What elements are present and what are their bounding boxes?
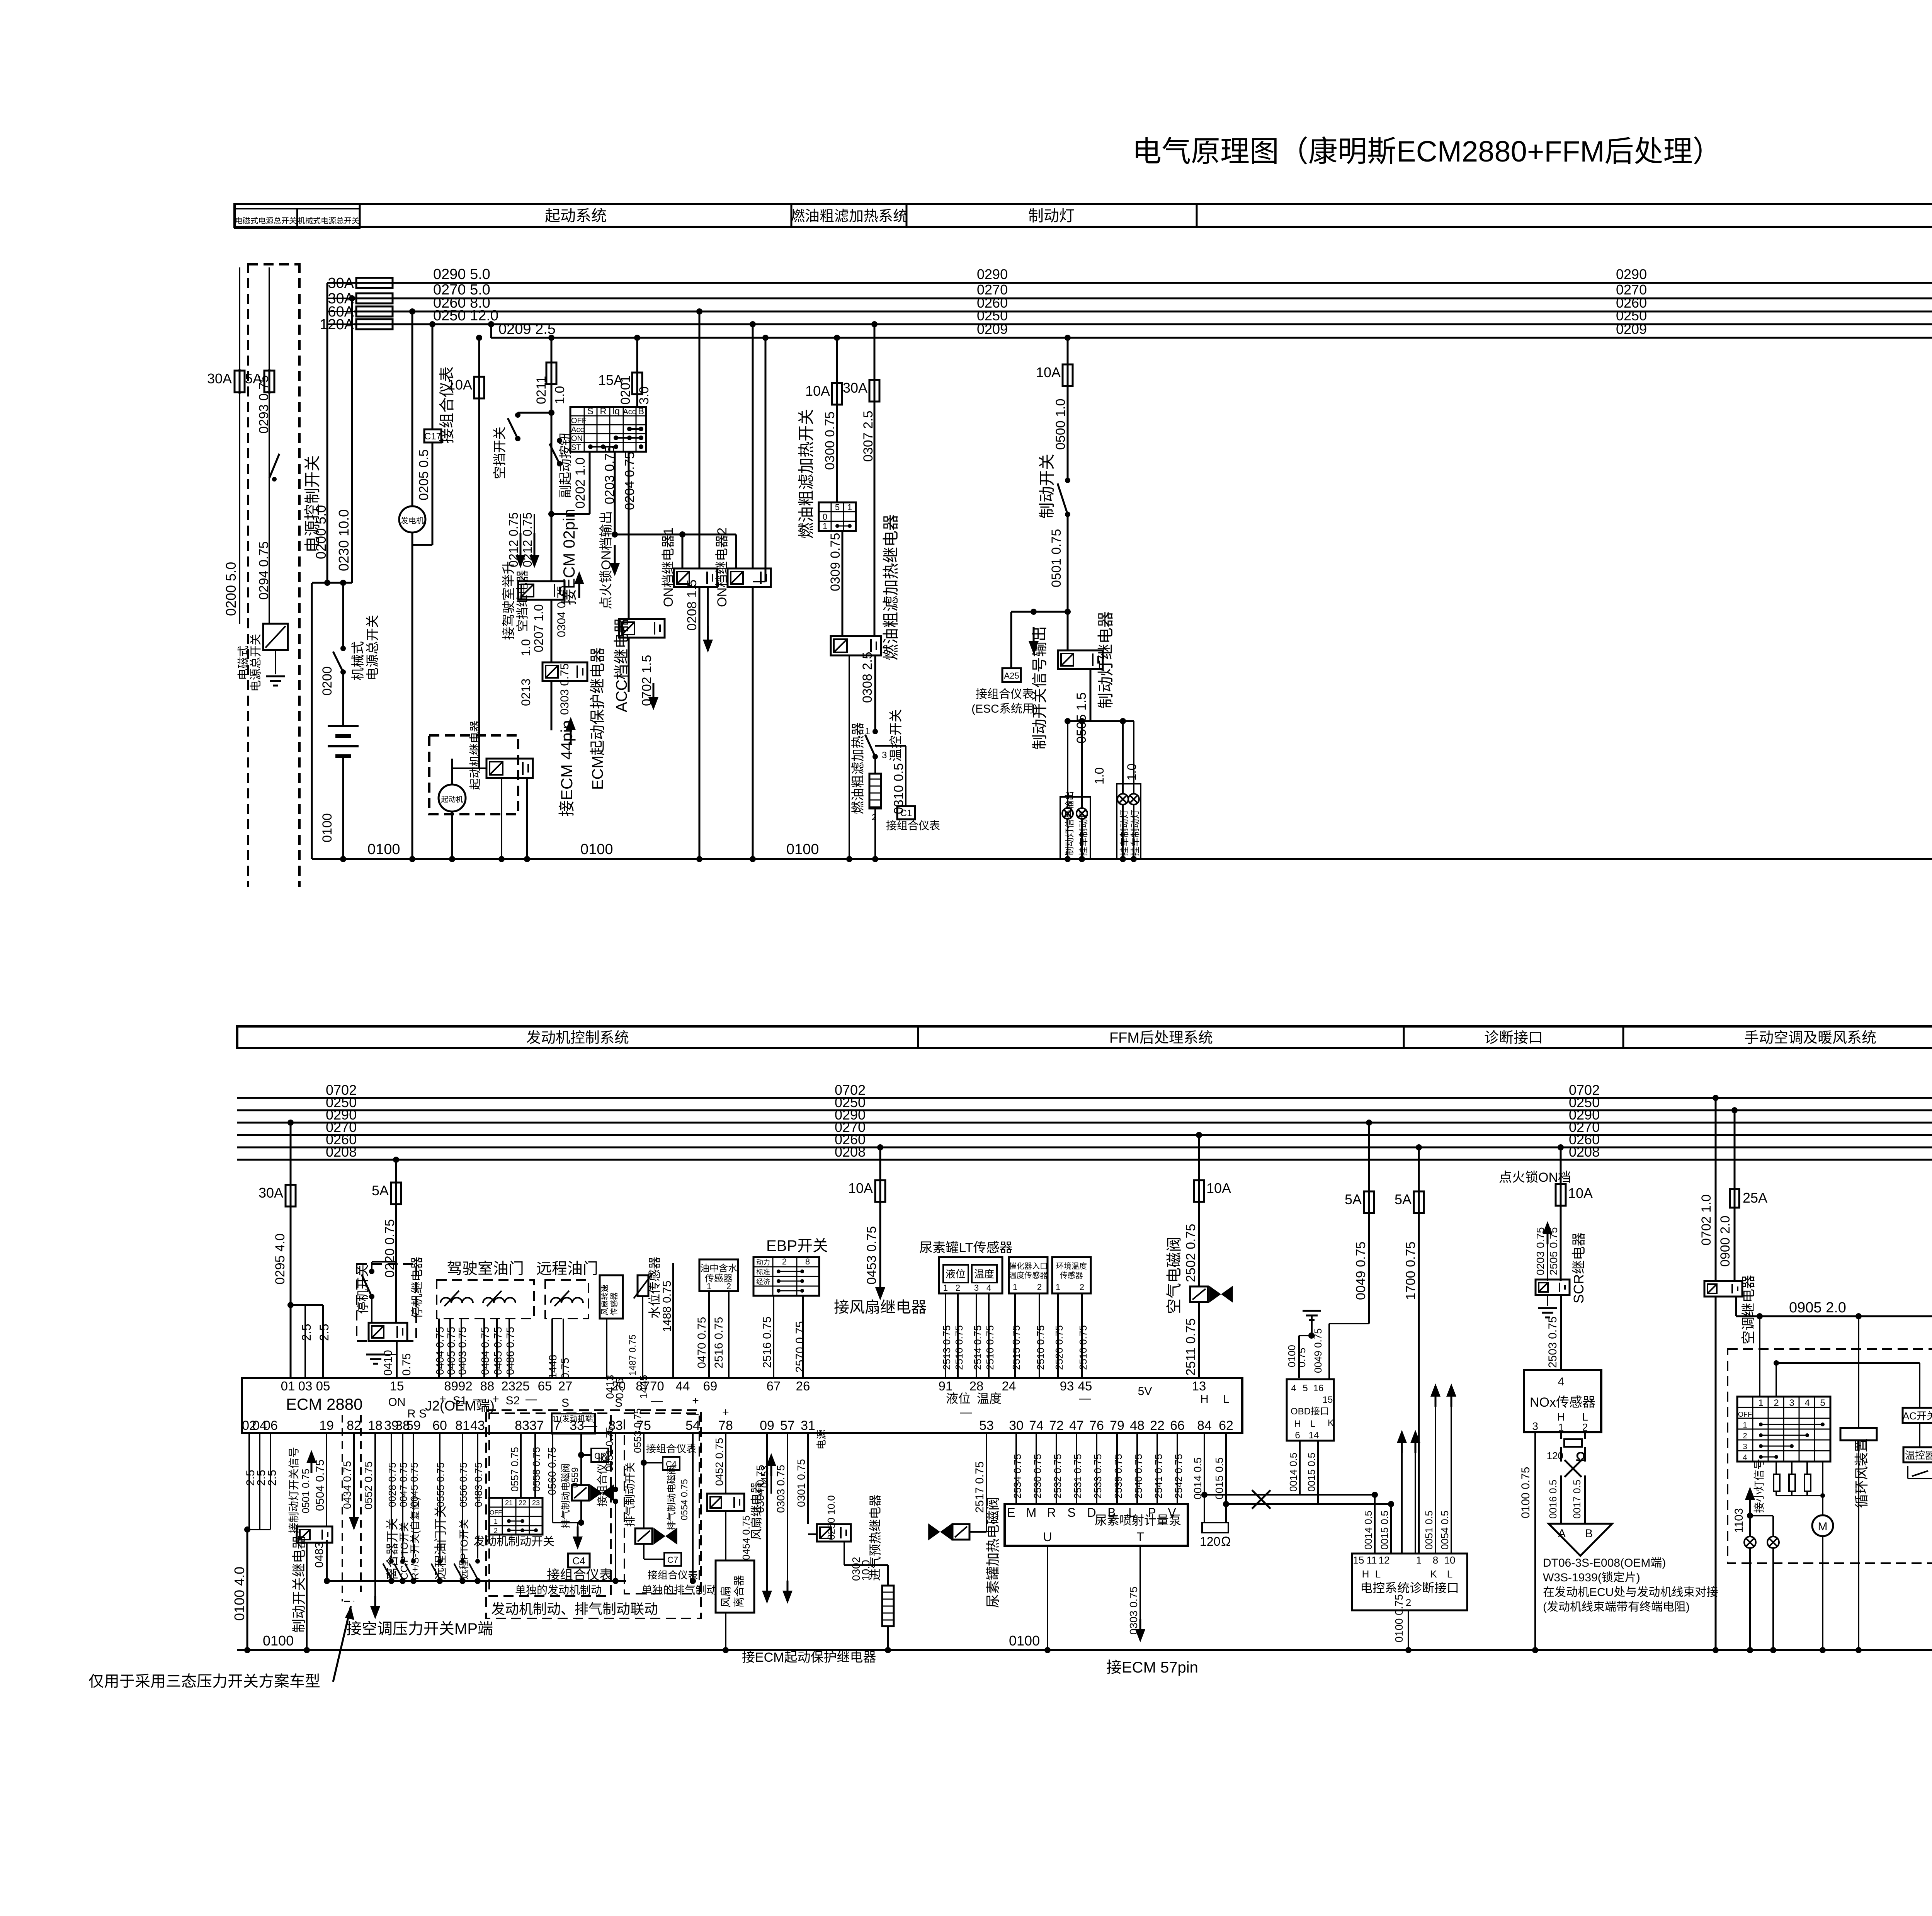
svg-text:0.75: 0.75 [559,1358,571,1379]
svg-text:接ECM 44pin: 接ECM 44pin [558,720,576,817]
ground scr [1538,1295,1557,1317]
label 1700 0.75 [1403,1242,1418,1300]
label 0205 0.5 [417,449,431,500]
label 0100 c [786,841,819,858]
wire cat2 [1039,1293,1040,1378]
label 0250 12.0 [433,308,498,324]
wire 0045 0.75 [413,1433,414,1559]
relay 燃油粗滤加热继电器 [831,636,881,655]
svg-text:19: 19 [319,1418,334,1433]
junction rail [312,580,352,859]
fuse 5A diag [1395,1144,1424,1215]
svg-text:3: 3 [1789,1398,1794,1408]
label 0303 0.75 b [775,1465,787,1513]
label 0100 bottom mid [1009,1633,1040,1649]
header cell 机械式电源总开关 [297,209,360,228]
pot 驾驶室油门 2 [483,1291,515,1306]
label 2530 0.75 [1032,1454,1043,1499]
wire 0470 [708,1291,710,1378]
svg-text:0557 0.75: 0557 0.75 [509,1447,520,1492]
label 接风扇继电器 [834,1299,927,1316]
svg-text:2516 0.75: 2516 0.75 [713,1317,725,1368]
svg-text:26: 26 [796,1379,810,1393]
svg-text:5: 5 [835,502,840,512]
svg-text:0470 0.75: 0470 0.75 [696,1317,708,1368]
svg-text:挂车制动灯: 挂车制动灯 [1119,810,1130,856]
label 远程PTO开关 [458,1519,470,1580]
wire 1448a [552,1319,563,1378]
svg-text:排气制动电磁阀: 排气制动电磁阀 [561,1463,571,1528]
svg-text:0100 0.75: 0100 0.75 [1519,1467,1532,1518]
wire nox H [1560,1432,1562,1439]
label 0230 10.0 [336,509,352,571]
wire valve1 [578,1434,591,1526]
label 发动机制动排气制动联动 [491,1601,658,1617]
label 接ECM 02pin [560,509,578,605]
svg-text:09: 09 [760,1418,774,1433]
label 2515 0.75 [1010,1325,1022,1370]
svg-text:制动开关继电器: 制动开关继电器 [291,1535,307,1633]
label 0100 4.0 b [231,1567,247,1621]
box 循环风装置 [1840,1428,1877,1440]
svg-text:1: 1 [1056,1282,1060,1292]
wire 0204 [628,452,630,619]
svg-text:在发动机ECU处与发动机线束对接: 在发动机ECU处与发动机线束对接 [1543,1586,1718,1599]
svg-text:14: 14 [1309,1430,1319,1441]
label 起动机继电器 [469,720,482,790]
svg-text:发电机: 发电机 [401,516,424,525]
annotation 仅用于 b [88,1606,354,1690]
svg-text:5A: 5A [1395,1191,1412,1207]
switch CC/PTO开关 [394,1559,405,1581]
svg-text:5A: 5A [372,1183,389,1198]
label 2542 0.75 [1173,1454,1184,1499]
wire recirc [1855,1316,1862,1653]
ground line 0100 bottom [237,1649,1932,1651]
fuse 30A b [259,1120,296,1208]
svg-text:10A: 10A [1206,1180,1231,1196]
fuse 30A aux [207,369,245,394]
label 0014 0.5 a [1192,1457,1204,1499]
svg-text:FFM后处理系统: FFM后处理系统 [1109,1030,1213,1046]
label 远程油门开关 [434,1506,447,1580]
svg-text:2: 2 [494,1527,498,1535]
wire diag canH [1372,1492,1378,1554]
arrow 0212 [515,514,539,568]
wire generator [409,308,415,507]
wire 2517 [969,1433,986,1532]
wire 0434 pin82 [349,1433,359,1530]
svg-text:+: + [722,1406,729,1419]
svg-text:温控开关: 温控开关 [889,709,903,762]
label 0555 0.75 [435,1462,446,1507]
svg-text:2: 2 [1774,1398,1779,1408]
switch 停机开关 [362,1262,396,1323]
svg-text:13: 13 [1192,1379,1206,1393]
svg-text:0208: 0208 [835,1144,866,1160]
svg-text:10A: 10A [1568,1185,1593,1201]
svg-text:4: 4 [986,1283,991,1293]
wire 1700 down [1418,1213,1420,1554]
wire pedal 0403 0.75 [461,1319,462,1378]
label 0294 0.75 [257,541,271,600]
svg-text:温度: 温度 [974,1268,994,1280]
svg-text:SCR继电器: SCR继电器 [1571,1232,1587,1303]
svg-text:Acc: Acc [623,408,636,416]
header label 诊断接口 [1484,1030,1543,1046]
svg-text:8: 8 [1433,1554,1438,1566]
label 0485 0.75 [492,1327,504,1375]
svg-text:59: 59 [406,1418,421,1433]
svg-text:OBD接口: OBD接口 [1291,1406,1329,1417]
wire 0028 0.75 [391,1433,392,1559]
label 排气制动电磁阀1 [561,1463,571,1528]
bus 0209 [491,337,1932,339]
svg-text:06: 06 [263,1418,278,1433]
label 0557 0.75 [509,1447,520,1492]
label 0015 0.5 c [1379,1511,1390,1550]
ground line 0100 top [312,858,1932,860]
fuse 60A bus0260 [328,304,395,320]
label 0702 1.0 [1699,1195,1714,1246]
svg-text:仅用于采用三态压力开关方案车型: 仅用于采用三态压力开关方案车型 [88,1673,320,1690]
wire ON2 vertical [750,321,756,859]
svg-text:27: 27 [558,1379,573,1393]
connector C4 a [568,1554,590,1567]
svg-text:0552 0.75: 0552 0.75 [362,1461,374,1509]
wire air valve [1198,1202,1200,1286]
label 0015 0.5 b [1306,1453,1317,1492]
svg-text:ECM 2880: ECM 2880 [286,1395,362,1413]
svg-text:1103: 1103 [1733,1508,1745,1533]
svg-text:0554 0.75: 0554 0.75 [679,1479,690,1520]
fuse 120A bus0250 [320,316,395,333]
svg-text:挂车制动灯: 挂车制动灯 [1130,810,1141,856]
svg-text:L: L [1223,1393,1230,1406]
svg-text:油中含水: 油中含水 [700,1263,737,1274]
svg-text:0230 10.0: 0230 10.0 [336,509,352,571]
switch R+/S-开关(自复位) [405,1559,416,1581]
wire fanclutch gnd [723,1613,729,1653]
svg-text:0486 0.75: 0486 0.75 [504,1327,516,1375]
svg-text:C1: C1 [900,808,912,818]
switch 副起动按钮 [549,438,562,466]
fuse 5A aux [245,369,274,394]
wire obd H [1299,1441,1301,1495]
lamp ac 2 [1767,1537,1779,1548]
svg-text:0100 0.75: 0100 0.75 [1393,1594,1405,1642]
label 2513 0.75 2447 [941,1325,952,1370]
svg-text:10A: 10A [848,1180,873,1196]
svg-text:0454 0.75: 0454 0.75 [740,1515,752,1560]
svg-text:2520 0.75: 2520 0.75 [1053,1325,1065,1370]
svg-text:2513 0.75: 2513 0.75 [941,1325,952,1370]
ground dots bottom [0,0,0,0]
label 0250 10.0 电源 [816,1429,837,1540]
svg-text:2530 0.75: 2530 0.75 [1032,1454,1043,1499]
label 0501 0.75 [1049,529,1064,587]
svg-text:发动机制动、排气制动联动: 发动机制动、排气制动联动 [491,1601,658,1617]
label 0270 5.0 [433,282,490,298]
svg-text:2.5: 2.5 [317,1324,331,1341]
svg-text:2539 0.75: 2539 0.75 [1112,1454,1124,1499]
label 0553 0.75 [632,1408,643,1453]
svg-text:驾驶室油门: 驾驶室油门 [447,1260,524,1277]
wire relay to lamps [1068,669,1134,721]
svg-text:温度: 温度 [977,1392,1002,1406]
svg-text:尿素罐LT传感器: 尿素罐LT传感器 [919,1240,1012,1255]
svg-text:2: 2 [1037,1282,1042,1292]
svg-text:0501 0.75: 0501 0.75 [1049,529,1064,587]
label 0302 10.0 [850,1557,872,1581]
svg-text:0702 1.0: 0702 1.0 [1699,1195,1714,1246]
label 2532 0.75 [1052,1454,1063,1499]
wire pin31 [808,1433,817,1534]
wires below fan switch [1776,1462,1823,1516]
svg-text:2515 0.75: 2515 0.75 [1010,1325,1022,1370]
label DT06 line2 [1543,1571,1640,1584]
svg-text:10A: 10A [805,383,830,399]
svg-text:经济: 经济 [756,1278,770,1286]
svg-text:风扇: 风扇 [720,1586,732,1608]
svg-text:54: 54 [685,1418,700,1433]
wire relay feed [479,398,551,768]
svg-text:0207 1.0: 0207 1.0 [532,604,546,652]
svg-text:0453 0.75: 0453 0.75 [864,1226,879,1285]
wire pump 2734 [1056,1433,1057,1504]
label ECM起动保护继电器 [589,647,606,790]
label 燃油粗滤加热开关 [797,409,815,539]
wire scr down [1560,1206,1562,1281]
svg-text:0293 0.75: 0293 0.75 [257,375,271,434]
label 0014 0.5 c [1362,1511,1374,1550]
fuse 10A fan [848,1144,885,1203]
connector 电控系统诊断接口 [1352,1554,1467,1610]
svg-text:0.75: 0.75 [400,1353,413,1376]
label 接空调压力开关MP端 [346,1620,493,1637]
arrow 接ECM44pin [566,717,576,744]
header label FFM后处理系统 [1109,1030,1213,1046]
svg-text:2510 0.75: 2510 0.75 [1035,1325,1046,1370]
svg-text:电控系统诊断接口: 电控系统诊断接口 [1360,1581,1459,1595]
svg-text:30: 30 [1009,1418,1024,1433]
svg-text:EBP开关: EBP开关 [766,1237,828,1254]
wire pump 3047 [1177,1433,1178,1504]
relay 空挡继电器 [518,581,565,600]
svg-text:69: 69 [703,1379,718,1393]
label 0434 0.75 b [341,1461,353,1509]
wire 0413 [606,1319,607,1378]
label 0309 0.75 [828,533,843,591]
svg-text:0404 0.75: 0404 0.75 [434,1327,446,1375]
svg-text:8770: 8770 [636,1379,664,1393]
label 0290 5.0 [433,266,490,282]
svg-text:0295 4.0: 0295 4.0 [273,1234,287,1285]
wire 0202 relay down [551,600,553,662]
label 接组合仪表 c4b [646,1443,696,1455]
label 0100 0.75 diag [1393,1594,1405,1642]
wire 0309 [842,531,844,636]
bus 0208 b [237,1159,1932,1161]
svg-text:0553 0.75: 0553 0.75 [632,1408,643,1453]
svg-text:0290 5.0: 0290 5.0 [433,266,490,282]
label 0200 5.0 left [223,562,239,616]
svg-text:2: 2 [1582,1421,1588,1433]
svg-text:0100: 0100 [1009,1633,1040,1649]
label 排气制动电磁阀2 [667,1465,677,1530]
wire pin19 [326,1433,327,1526]
wire 1488 [672,1263,674,1378]
svg-text:远程油门开关: 远程油门开关 [434,1506,447,1580]
label 接组合仪表 top [439,366,456,444]
svg-text:催化器入口: 催化器入口 [1009,1262,1048,1271]
label 空调继电器 [1740,1275,1756,1344]
connector triangle AB [1549,1524,1612,1556]
wire pump 2995 [1156,1433,1158,1504]
label ACC档继电器 [613,618,630,712]
solenoid switch 电磁式电源总开关 [263,624,288,650]
twist nox [1561,1447,1585,1524]
label 0484 0.75 [479,1327,491,1375]
svg-text:76: 76 [1089,1418,1104,1433]
label 0201 3.0 [618,375,651,405]
label 燃油粗滤加热器 [851,722,866,814]
label 远程油门 [536,1260,598,1277]
label 0454 0.75 [740,1515,752,1560]
fuse 10A brake [1036,335,1073,388]
valve 排气制动电磁阀1 [572,1484,614,1501]
wire heater gnd [874,808,876,859]
dashed box 远程油门 [545,1280,588,1319]
label 2510 0.75 2479 [953,1325,965,1370]
label 1448 0.75 [547,1355,571,1379]
wire pedal 0485 0.75 [496,1319,498,1378]
svg-text:尿素喷射计量泵: 尿素喷射计量泵 [1095,1513,1181,1527]
svg-text:0500 1.0: 0500 1.0 [1053,399,1068,450]
box 温控器 [1903,1447,1932,1462]
svg-text:0304 0.75: 0304 0.75 [754,1465,766,1513]
label 制动开关信号输出 [1031,626,1048,750]
label 接ECM 57pin [1106,1659,1198,1676]
wire 0230 [349,295,355,583]
svg-text:2: 2 [1406,1597,1411,1608]
svg-text:0203 0.75: 0203 0.75 [1534,1227,1546,1275]
svg-text:0100: 0100 [786,841,819,858]
svg-text:60: 60 [432,1418,447,1433]
svg-text:ACC档继电器: ACC档继电器 [613,618,630,712]
switch 空挡开关 [508,412,520,441]
svg-text:3.0: 3.0 [637,386,651,405]
svg-text:3: 3 [1743,1443,1747,1451]
svg-text:22: 22 [1150,1418,1165,1433]
svg-text:0054 0.5: 0054 0.5 [1439,1511,1451,1550]
label 2.5 2.5 [299,1324,331,1341]
svg-text:S: S [615,1397,622,1409]
wire 0702 ac [1713,1095,1719,1281]
relay 空调继电器 [1704,1281,1742,1297]
label 2541 0.75 [1153,1454,1164,1499]
label 0100 b [580,841,613,858]
wire ebp1 [773,1296,774,1378]
label 0260 8.0 [433,295,490,311]
svg-text:2531 0.75: 2531 0.75 [1072,1454,1083,1499]
bottom bus labels x4060 [1569,1082,1600,1160]
svg-text:2514 0.75: 2514 0.75 [972,1325,983,1370]
svg-text:0100: 0100 [320,813,335,842]
wire pins 020406 [244,1433,270,1653]
svg-text:(ESC系统用): (ESC系统用) [971,703,1038,715]
svg-text:2503 0.75: 2503 0.75 [1546,1317,1559,1368]
heater 燃油粗滤加热器 [869,759,881,822]
dashed box starter [429,735,518,814]
svg-text:制动灯信号输出: 制动灯信号输出 [1065,791,1075,856]
svg-text:10: 10 [1444,1554,1456,1566]
svg-text:2.5: 2.5 [299,1324,313,1341]
svg-text:—: — [960,1406,972,1419]
wire pump 2891 [1116,1433,1118,1504]
label 2517 0.75 [973,1462,986,1513]
svg-text:0200 5.0: 0200 5.0 [313,505,329,559]
bus labels repeat x2528 [977,266,1008,337]
label 2511 0.75 [1184,1318,1198,1376]
label 1445 0.75 [628,1334,650,1399]
label 2531 0.75 [1072,1454,1083,1499]
label 电源控制开关 [303,455,321,553]
svg-text:燃油粗滤加热系统: 燃油粗滤加热系统 [790,208,908,225]
svg-text:0556 0.75: 0556 0.75 [457,1462,469,1507]
svg-text:4: 4 [1558,1375,1565,1388]
svg-text:电源: 电源 [816,1429,827,1450]
svg-text:机械式: 机械式 [351,641,366,681]
svg-text:制动灯: 制动灯 [1028,208,1075,225]
svg-text:液位: 液位 [946,1268,966,1280]
svg-text:0028 0.75: 0028 0.75 [386,1462,398,1507]
svg-text:0290: 0290 [977,266,1008,282]
label 排气制动开关 [624,1462,636,1527]
label 2510 0.75 d [1077,1325,1089,1370]
sensor 水位传感器 [634,1274,652,1298]
label 2534 0.75 [1012,1454,1023,1499]
svg-text:0309 0.75: 0309 0.75 [828,533,843,591]
label 单独的排气制动 [641,1584,717,1596]
svg-text:84: 84 [1197,1418,1212,1433]
label 停机继电器 [410,1257,424,1319]
wire urea 2447 [945,1293,946,1378]
fuse 10A fuel [805,335,842,406]
label 0204 0.75 [622,452,637,510]
wire brake junction [1065,517,1071,650]
svg-text:空气电磁阀: 空气电磁阀 [1166,1237,1183,1314]
bus 0209 riser [488,321,494,338]
svg-text:1: 1 [494,1518,498,1525]
svg-text:0100 4.0: 0100 4.0 [231,1567,247,1621]
svg-text:3: 3 [1532,1420,1538,1432]
wire pedal 0484 0.75 [483,1319,485,1378]
switch block 发动机制动开关 [489,1498,543,1535]
relay 制动开关继电器 [297,1526,332,1543]
svg-text:2533 0.75: 2533 0.75 [1092,1454,1104,1499]
label 制动灯信号输出 [1065,791,1089,856]
label 0403 0.75 [456,1327,468,1375]
svg-text:0211: 0211 [534,376,549,404]
label 温控开关 [889,709,903,762]
label 0413 0.75 [604,1375,626,1399]
svg-text:79: 79 [1110,1418,1124,1433]
bus 0270 [393,298,1932,299]
svg-text:OFF: OFF [571,417,587,425]
svg-text:离合器: 离合器 [733,1575,745,1608]
label 制动开关 [1038,454,1056,519]
